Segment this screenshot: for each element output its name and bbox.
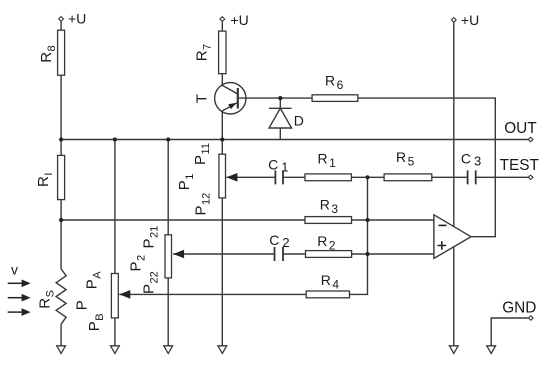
svg-text:OUT: OUT <box>504 120 537 137</box>
potentiometer P1 body <box>219 154 226 198</box>
terminal +U left <box>59 17 64 22</box>
photoresistor RS zigzag <box>56 269 66 324</box>
svg-text:R1: R1 <box>318 151 337 170</box>
svg-text:R7: R7 <box>194 44 214 61</box>
wire +U rail to op-amp supply and ground <box>453 22 455 346</box>
svg-text:P21: P21 <box>141 226 161 249</box>
svg-text:R8: R8 <box>38 45 58 62</box>
ground symbol P2 column <box>164 346 173 354</box>
label C2 <box>269 232 289 250</box>
wire P2 column from bus to ground <box>167 140 169 347</box>
svg-text:R6: R6 <box>325 72 344 91</box>
svg-text:TEST: TEST <box>500 157 540 174</box>
terminal +U right <box>451 18 456 23</box>
svg-text:v: v <box>11 262 18 278</box>
label C1 <box>268 156 288 174</box>
resistor R8 <box>58 30 65 75</box>
transistor T <box>215 83 246 114</box>
label R7 rotated <box>194 44 214 61</box>
svg-text:R4: R4 <box>321 272 340 291</box>
svg-text:PA: PA <box>84 271 104 290</box>
svg-text:+U: +U <box>230 12 248 28</box>
wiper arrow P2 <box>173 250 184 259</box>
junction node R2 summing <box>365 252 369 256</box>
svg-text:R3: R3 <box>320 197 339 216</box>
label OUT <box>504 120 537 137</box>
svg-text:P2: P2 <box>128 255 148 272</box>
label C3 <box>461 151 481 169</box>
resistor R6 <box>312 95 358 102</box>
svg-text:+U: +U <box>461 12 479 28</box>
label R2 <box>317 233 336 252</box>
terminal GND <box>528 316 533 320</box>
wire P1 column from bus to ground <box>221 140 223 347</box>
label T rotated <box>194 94 211 103</box>
svg-text:C1: C1 <box>268 156 288 174</box>
label PB rotated <box>86 313 106 331</box>
potentiometer P body <box>111 274 118 318</box>
wire P wiper through R4 to summing vertical <box>119 177 367 294</box>
ground symbol P1 column <box>218 346 227 354</box>
wiper arrow P1 <box>226 173 237 182</box>
svg-text:RI: RI <box>35 173 55 187</box>
junction node RI RS tap <box>59 218 63 222</box>
svg-text:D: D <box>294 113 304 129</box>
capacitor C1 <box>275 170 283 184</box>
label P rotated <box>74 300 91 310</box>
label R8 rotated <box>38 45 58 62</box>
wiper arrow P <box>119 290 130 299</box>
wire main bus OUT net <box>61 139 528 141</box>
diode D <box>269 98 292 139</box>
label R4 <box>321 272 340 291</box>
wire C1 to R1 R5 to C3 <box>284 176 467 178</box>
label +U right <box>461 12 479 28</box>
label P12 rotated <box>193 193 213 216</box>
svg-text:C3: C3 <box>461 151 481 169</box>
resistor R1 <box>305 174 351 181</box>
wire left +U column through R8, RI down to RS <box>60 21 62 269</box>
terminal TEST <box>528 175 533 179</box>
svg-text:P12: P12 <box>193 193 213 216</box>
svg-text:C2: C2 <box>269 232 289 250</box>
svg-text:+U: +U <box>68 11 86 27</box>
wire P2 wiper to C2 <box>173 253 274 255</box>
junction node base diode R6 <box>278 96 282 100</box>
label RS rotated <box>37 290 57 309</box>
junction node P1 emitter bus <box>220 137 224 141</box>
svg-text:R5: R5 <box>396 149 415 168</box>
wire R6 row and feedback to op-amp output <box>280 98 495 237</box>
svg-text:RS: RS <box>37 290 57 309</box>
label P22 rotated <box>141 271 161 294</box>
capacitor C3 <box>468 170 476 184</box>
ground symbol GND terminal <box>487 346 496 354</box>
svg-text:GND: GND <box>502 300 536 317</box>
label P11 rotated <box>192 143 212 165</box>
label v <box>11 262 18 278</box>
wire P column from bus to ground <box>114 140 116 347</box>
svg-text:R2: R2 <box>317 233 336 252</box>
junction node R3 summing <box>365 218 369 222</box>
svg-text:P1: P1 <box>176 174 196 191</box>
terminal OUT <box>528 137 533 141</box>
resistor R3 <box>305 217 352 224</box>
wire R3 row to op-amp inverting input <box>61 219 434 221</box>
label R6 <box>325 72 344 91</box>
junction node R8 RI bus <box>59 137 63 141</box>
light arrow 2 <box>8 294 31 302</box>
svg-text:PB: PB <box>86 313 106 331</box>
resistor R7 <box>219 31 226 74</box>
label P2 rotated <box>128 255 148 272</box>
wire C2 through R2 to op-amp noninverting input <box>284 253 434 255</box>
wire R7 column from +U to transistor collector <box>221 22 223 86</box>
resistor R5 <box>384 174 432 181</box>
svg-text:P22: P22 <box>141 271 161 294</box>
terminal +U middle <box>220 17 225 22</box>
resistor R4 <box>306 291 349 298</box>
label P21 rotated <box>141 226 161 249</box>
ground symbol P column <box>111 346 120 354</box>
label R3 <box>320 197 339 216</box>
svg-text:P11: P11 <box>192 143 212 165</box>
op-amp U1 <box>434 215 471 259</box>
junction node P column bus <box>113 137 117 141</box>
ground symbol left column <box>57 346 66 354</box>
label TEST <box>500 157 540 174</box>
resistor R2 <box>306 251 352 258</box>
ground symbol op-amp supply <box>449 346 458 354</box>
label D <box>294 113 304 129</box>
svg-text:P: P <box>74 300 91 310</box>
potentiometer P2 body <box>165 235 172 278</box>
label RI rotated <box>35 173 55 187</box>
label GND <box>502 300 536 317</box>
wire RS bottom to ground <box>60 324 62 346</box>
label R5 <box>396 149 415 168</box>
light arrow 3 <box>8 308 31 316</box>
label P1 rotated <box>176 174 196 191</box>
wire transistor emitter to main bus <box>221 111 223 140</box>
resistor RI <box>58 155 65 199</box>
label +U left <box>68 11 86 27</box>
wire transistor base to diode node <box>239 97 281 99</box>
svg-text:T: T <box>194 94 211 103</box>
label +U middle <box>230 12 248 28</box>
wire GND terminal to ground <box>491 318 528 346</box>
label PA rotated <box>84 271 104 290</box>
capacitor C2 <box>275 247 284 261</box>
wire C3 to TEST terminal <box>476 176 528 178</box>
junction node P2 column bus <box>166 137 170 141</box>
junction node R1 R5 <box>365 175 369 179</box>
label R1 <box>318 151 337 170</box>
wire P1 wiper to C1 <box>226 176 274 178</box>
light arrow 1 <box>8 280 31 288</box>
